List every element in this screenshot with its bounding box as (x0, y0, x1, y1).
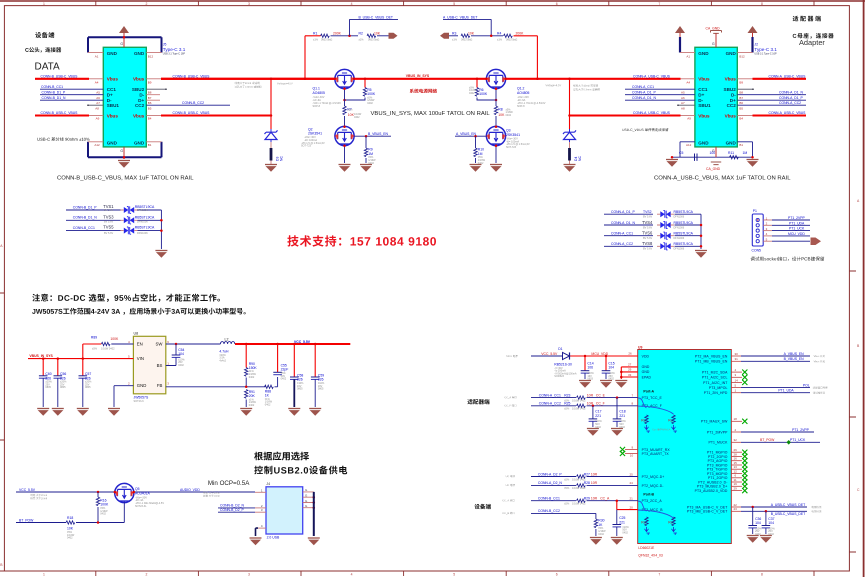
note gray under vcc wire (30, 494, 46, 500)
svg-text:R25: R25 (564, 402, 570, 406)
svg-text:A_VBUS_EN: A_VBUS_EN (456, 132, 477, 136)
pin30 wire A_VBUS_EN (731, 352, 825, 357)
svg-text:PT1_AI2C_INT: PT1_AI2C_INT (703, 381, 727, 385)
svg-text:TVS6: TVS6 (642, 231, 653, 236)
resistor R1 200K (312, 32, 342, 42)
svg-text:PT2_MQC-D-: PT2_MQC-D- (642, 484, 664, 488)
svg-text:CONN-B_D2_P: CONN-B_D2_P (220, 508, 244, 512)
wire R88 to C55 (275, 377, 278, 387)
svg-text:CONN-A_USB-C_VBUS: CONN-A_USB-C_VBUS (633, 111, 671, 115)
svg-text:DFN1006: DFN1006 (674, 237, 685, 240)
svg-text:CONN-A_CC2: CONN-A_CC2 (779, 101, 801, 105)
svg-text:PT2_MQC-D+: PT2_MQC-D+ (642, 475, 665, 479)
svg-text:SOP-8: SOP-8 (313, 105, 321, 108)
svg-text:AO4805: AO4805 (517, 91, 530, 95)
J4 gnd bus bar (313, 492, 315, 536)
svg-text:LD66021E: LD66021E (638, 546, 655, 550)
svg-text:B5: B5 (148, 106, 152, 110)
svg-text:GND: GND (698, 51, 709, 56)
junction (270, 114, 273, 117)
svg-text:B9: B9 (739, 81, 743, 85)
regulator U8 JW5057S (128, 332, 169, 403)
svg-text:6: 6 (556, 2, 558, 6)
pin32 wire BT_POW PT1_UCK (731, 438, 820, 444)
svg-text:29: 29 (734, 487, 738, 491)
resistor R7 10K (343, 106, 362, 119)
TVS3 row (66, 214, 161, 224)
junction C15 (605, 355, 608, 358)
svg-text:0805: 0805 (45, 386, 51, 389)
svg-text:AO3401A: AO3401A (135, 492, 150, 496)
svg-text:GND: GND (107, 141, 118, 146)
svg-text:7: 7 (632, 393, 634, 397)
svg-text:D-: D- (139, 92, 144, 97)
capacitor C14 (581, 356, 595, 381)
svg-text:1K: 1K (598, 523, 603, 527)
resistor R8 10K (494, 106, 513, 117)
svg-text:±1%: ±1% (497, 39, 503, 42)
pin1 wire PT1_UDA (731, 389, 825, 394)
junction R16 top (97, 491, 100, 494)
svg-text:VDD: VDD (642, 354, 650, 358)
J2 pin names (698, 51, 736, 146)
svg-text:CONN-A_USB-C_VBUS: CONN-A_USB-C_VBUS (633, 74, 671, 78)
junction R16 bottom (97, 521, 100, 524)
svg-text:0402: 0402 (249, 404, 255, 407)
svg-text:A5: A5 (681, 91, 685, 95)
P1 pin3 wire PT1_UCK (763, 227, 810, 231)
junction (293, 343, 296, 346)
svg-text:A12: A12 (94, 143, 100, 147)
J2 power arrow right CA_GND (748, 26, 758, 37)
svg-text:0603 5мΩ: 0603 5мΩ (506, 39, 517, 42)
resistor R89 100K (91, 336, 119, 351)
heading 设备端 bottom (475, 504, 491, 509)
wire D4 stem (569, 116, 571, 130)
svg-text:RB5STL9CA: RB5STL9CA (674, 232, 694, 236)
junction (270, 78, 273, 81)
junction (700, 245, 703, 248)
J5 top GND loop wire (88, 37, 162, 52)
svg-text:BT_POW: BT_POW (760, 438, 775, 442)
svg-text:G: G (712, 42, 715, 46)
J2 bottom rail (672, 156, 753, 158)
svg-text:2.0 USB: 2.0 USB (267, 535, 280, 539)
svg-text:200K: 200K (333, 32, 342, 36)
svg-text:A9: A9 (96, 117, 100, 121)
resistor R90 150K (245, 344, 258, 387)
svg-text:8: 8 (761, 573, 763, 577)
net CONN-A_CC1 wire left (625, 88, 695, 90)
svg-text:Min OCP=0.5A: Min OCP=0.5A (208, 480, 250, 487)
svg-text:0402: 0402 (354, 116, 360, 119)
svg-text:2: 2 (735, 428, 737, 432)
svg-text:±5%: ±5% (92, 348, 98, 351)
svg-text:RB5STL9CA: RB5STL9CA (674, 221, 694, 225)
J5 pin names (107, 51, 145, 146)
svg-text:POL: POL (803, 383, 810, 387)
transistor Q2 2SK3541 (335, 126, 354, 145)
svg-text:DFN1006: DFN1006 (137, 209, 148, 212)
svg-text:SOD523: SOD523 (554, 375, 564, 378)
svg-text:104: 104 (608, 366, 614, 370)
net CONN-A_D1_P wire left (625, 94, 695, 96)
svg-text:GND: GND (107, 51, 118, 56)
svg-text:BS: BS (157, 363, 163, 368)
net CONN-A_D2_N wire R28 row (506, 481, 638, 490)
svg-text:CONN-B_D1_N: CONN-B_D1_N (73, 216, 97, 220)
svg-text:26: 26 (628, 352, 632, 356)
svg-text:31: 31 (735, 357, 739, 361)
svg-text:B9: B9 (148, 81, 152, 85)
wire G to top rail (123, 36, 125, 47)
svg-text:SBU2: SBU2 (132, 87, 145, 92)
net CONN-B_USB-C_VBUS left wire (35, 78, 89, 80)
svg-text:J5: J5 (163, 43, 167, 47)
junction pin21 row (616, 499, 619, 502)
svg-text:VCC_5.5V: VCC_5.5V (19, 488, 36, 492)
svg-text:3: 3 (735, 373, 737, 377)
svg-text:A6: A6 (96, 96, 100, 100)
junction C36 (751, 506, 754, 509)
svg-text:A1: A1 (95, 54, 99, 58)
svg-text:Type-C 3.1: Type-C 3.1 (754, 47, 777, 52)
svg-text:221: 221 (595, 414, 601, 418)
svg-text:VBUS_IN_SYS: VBUS_IN_SYS (29, 354, 53, 358)
J5 G bottom stem (123, 147, 125, 159)
net CONN-B_D1_N wire (40, 99, 103, 101)
svg-text:20: 20 (630, 506, 634, 510)
diode D4 (563, 129, 576, 142)
svg-text:CONN-B_D1_N: CONN-B_D1_N (42, 96, 66, 100)
svg-text:SBU2: SBU2 (724, 87, 737, 92)
ground below Q2 (339, 165, 351, 172)
U9 right pin names (687, 354, 728, 513)
ground TVS left (155, 251, 167, 258)
wire Q1.2 to R8 (495, 89, 497, 106)
svg-text:RB5STL9CA: RB5STL9CA (135, 215, 155, 219)
svg-text:1K: 1K (265, 393, 270, 397)
svg-text:PT1_2IN_HPD: PT1_2IN_HPD (704, 391, 728, 395)
svg-text:SOT23-6: SOT23-6 (134, 400, 145, 403)
svg-text:USB 3.1 Type-C 16P: USB 3.1 Type-C 16P (754, 52, 777, 55)
svg-text:10R: 10R (591, 472, 598, 476)
svg-text:PT2_MA_VBUS_EN: PT2_MA_VBUS_EN (695, 354, 728, 358)
svg-text:6: 6 (556, 573, 558, 577)
svg-text:D1: D1 (558, 347, 562, 351)
svg-text:CONN-B_USB-C_VBUS: CONN-B_USB-C_VBUS (41, 74, 79, 78)
note trace width left (235, 82, 293, 88)
net CONN-A_CC1 wire (737, 104, 806, 106)
svg-text:A6: A6 (681, 96, 685, 100)
svg-text:BV 5.6V: BV 5.6V (643, 216, 653, 219)
ground C60 (37, 409, 49, 416)
wire U8 GND pin (114, 386, 133, 407)
svg-text:Adapter: Adapter (799, 38, 825, 47)
svg-text:B6: B6 (148, 101, 152, 105)
wire R1 branch (305, 36, 312, 79)
net CONN-B_CC1 wire (40, 88, 103, 90)
pin23 wire B_USB-C_VBUS_DET (731, 507, 821, 516)
svg-text:TVS8: TVS8 (642, 241, 653, 246)
net CONN-A_D2_P wire R27 row (506, 472, 638, 481)
svg-text:R89: R89 (91, 336, 97, 340)
svg-text:±5%: ±5% (564, 487, 570, 490)
J5 right lower Vbus wire (146, 115, 161, 117)
resistor R3 10K (449, 32, 475, 42)
note gray right of Q5 (203, 492, 219, 498)
note USB-C diff pair (37, 137, 89, 141)
svg-text:FB: FB (157, 383, 163, 388)
svg-text:14: 14 (735, 378, 739, 382)
svg-text:0805: 0805 (318, 388, 324, 391)
port arrow right (389, 33, 398, 39)
capacitor C5 (679, 151, 715, 161)
svg-text:VBUS_IN_SYS, MAX 100uF TATOL O: VBUS_IN_SYS, MAX 100uF TATOL ON RAIL (371, 111, 491, 117)
svg-text:25: 25 (630, 472, 634, 476)
svg-text:2: 2 (128, 382, 130, 386)
svg-text:106: 106 (587, 366, 593, 370)
svg-text:±5%: ±5% (564, 478, 570, 481)
svg-text:9: 9 (632, 445, 634, 449)
junction C18 (616, 396, 619, 399)
svg-text:Q5: Q5 (135, 487, 140, 491)
svg-text:J4: J4 (266, 482, 270, 486)
net CONN-B_D2_P wire (218, 508, 266, 512)
svg-text:PT3_2CC_A: PT3_2CC_A (642, 499, 663, 503)
resistor R2 10K (359, 32, 381, 42)
junction Q1.1 leads (334, 78, 337, 81)
wire Q2 gate right (354, 135, 391, 137)
svg-text:10K: 10K (468, 32, 475, 36)
J5 right D- D+ stubs (146, 95, 160, 101)
pin2 wire PT1_2VPP (731, 428, 814, 432)
svg-text:VIN: VIN (137, 356, 144, 361)
svg-text:PT1_AI2C_SCL: PT1_AI2C_SCL (702, 376, 728, 380)
net CONN-A_D1_N wire (737, 94, 806, 96)
resistor R91 20K (245, 390, 257, 408)
U9 GND EPAD bundle wires (621, 362, 637, 379)
svg-text:1M: 1M (478, 152, 483, 156)
heading C母座 连接器 (793, 33, 834, 39)
ground C57 (77, 409, 89, 416)
svg-text:B5: B5 (739, 106, 743, 110)
svg-text:EPAD: EPAD (642, 375, 652, 379)
svg-text:BV 5.6V: BV 5.6V (643, 226, 653, 229)
svg-text:CONN-A_D1_P: CONN-A_D1_P (632, 91, 656, 95)
ground C59 (309, 409, 321, 416)
junction gate node (343, 99, 346, 102)
junction gate node (495, 99, 498, 102)
svg-text:A8: A8 (681, 106, 685, 110)
svg-text:0402: 0402 (249, 376, 255, 379)
connector P1 CON5 (752, 209, 768, 253)
svg-text:RB5STL9CA: RB5STL9CA (674, 210, 694, 214)
ground C36 (747, 536, 759, 543)
pin3 nc stub (731, 373, 742, 377)
svg-text:GND: GND (134, 51, 145, 56)
wire vbus drop left (270, 79, 272, 116)
wire Q5 gate stem (123, 502, 125, 522)
svg-text:J2: J2 (754, 43, 758, 47)
svg-text:SOT-723: SOT-723 (506, 146, 517, 149)
note 控制USB2.0设备供电 (254, 466, 347, 475)
svg-text:CA_GND: CA_GND (706, 167, 721, 171)
IC U9 body (638, 346, 732, 558)
svg-text:CONN-A_CC1: CONN-A_CC1 (632, 85, 654, 89)
wire vbus drop right (569, 79, 571, 116)
svg-text:A8: A8 (95, 106, 99, 110)
J5 SBU2 nc stub (146, 88, 166, 90)
svg-text:1/16W 0402: 1/16W 0402 (572, 503, 586, 506)
svg-text:TVS3: TVS3 (103, 214, 114, 219)
svg-text:GND: GND (134, 141, 145, 146)
svg-text:GND: GND (642, 370, 650, 374)
capacitor C36 (748, 507, 762, 536)
svg-text:Q1.2: Q1.2 (517, 86, 524, 90)
ground C15 (600, 381, 612, 388)
ground C17 (587, 429, 599, 436)
J5 A12 stub (88, 141, 103, 143)
heading C公头 连接器 (25, 47, 61, 52)
svg-text:CON5: CON5 (752, 249, 762, 253)
nc X pin9 (620, 447, 625, 452)
svg-text:USB 3.1 Type-C 16P: USB 3.1 Type-C 16P (163, 52, 186, 55)
svg-text:CONN-A_CC1: CONN-A_CC1 (539, 393, 561, 397)
svg-text:B8: B8 (739, 91, 743, 95)
gpio X marks (742, 450, 747, 455)
svg-text:PT1_2MVPP: PT1_2MVPP (707, 430, 728, 434)
svg-text:R28: R28 (584, 481, 590, 485)
wire R6 to Q1.2 gate (477, 98, 496, 101)
nc X pin10 (620, 451, 625, 456)
ground R91 (240, 409, 252, 416)
port arrow P1 gnd (811, 238, 822, 246)
svg-text:100: 100 (710, 151, 716, 155)
J2 SBU2 right nc stub (737, 88, 753, 90)
svg-text:CONN-A_CC2: CONN-A_CC2 (539, 402, 561, 406)
junction J2 bottom right (751, 156, 754, 159)
J2 left navy bar (679, 37, 681, 53)
svg-text:5: 5 (735, 384, 737, 388)
svg-text:100K: 100K (110, 337, 119, 341)
capacitor C59 (311, 344, 325, 407)
svg-text:1/16W 0402: 1/16W 0402 (572, 487, 586, 490)
svg-text:SBU1: SBU1 (107, 103, 120, 108)
svg-text:10R: 10R (591, 481, 598, 485)
J2 B12 stub (737, 52, 752, 54)
svg-text:Q3: Q3 (506, 129, 511, 133)
junction (42, 357, 45, 360)
svg-text:±5%: ±5% (564, 408, 570, 411)
net CONN-B_CC2 wire (503, 509, 596, 514)
net VCC_5.5V wire to Q5 (16, 491, 255, 493)
svg-text:CONN-A_USB-C_VBUS: CONN-A_USB-C_VBUS (769, 74, 807, 78)
svg-text:BV 5.6V: BV 5.6V (104, 209, 114, 212)
note 系统电源网络 (410, 89, 437, 93)
ground C14 (579, 381, 591, 388)
U9 internal Ra pullups port A (638, 398, 650, 433)
svg-text:PT1_UDA: PT1_UDA (778, 389, 794, 393)
port arrow left (right group) (440, 33, 449, 39)
capacitor C18 (613, 398, 627, 429)
ground below J5 (118, 161, 130, 168)
svg-text:CONN-B_USB-C_VBUS: CONN-B_USB-C_VBUS (173, 111, 211, 115)
svg-text:BV 5.6V: BV 5.6V (104, 220, 114, 223)
svg-text:1: 1 (261, 488, 263, 492)
svg-text:JW5057S: JW5057S (134, 395, 149, 399)
capacitor C17 (589, 406, 603, 429)
svg-text:1: 1 (167, 361, 169, 365)
svg-text:CA_GND: CA_GND (706, 27, 721, 31)
svg-text:DFN1006: DFN1006 (674, 248, 685, 251)
J2 SBU1 stub (678, 104, 695, 106)
svg-text:BV 5.6V: BV 5.6V (104, 232, 114, 235)
net CONN-A_USB-C_VBUS right wire (737, 78, 752, 80)
svg-text:C5: C5 (679, 151, 683, 155)
heading 适配器端 mid (467, 399, 489, 404)
svg-text:RB5STL9CA: RB5STL9CA (135, 226, 155, 230)
svg-text:100K: 100K (367, 92, 376, 96)
junction (276, 343, 279, 346)
svg-text:CONN-B_CC1: CONN-B_CC1 (41, 85, 63, 89)
svg-text:GND: GND (726, 51, 737, 56)
J4 right G stubs (303, 488, 314, 508)
svg-text:CONN-A_CC2: CONN-A_CC2 (611, 242, 633, 246)
svg-text:150K: 150K (249, 366, 258, 370)
svg-text:CONN-A_D1_P: CONN-A_D1_P (611, 210, 635, 214)
pin4 nc stub (731, 368, 742, 372)
junction (160, 229, 163, 232)
connector J5 USB-C body (103, 47, 146, 147)
junction (700, 224, 703, 227)
ground TVS right (695, 251, 707, 258)
resistor R18 10K (66, 516, 75, 539)
ground J4 right (308, 538, 320, 545)
junction R9 top (365, 135, 368, 138)
svg-text:226: 226 (318, 378, 324, 382)
net CONN-B_USB-C_VBUS lower left wire (35, 114, 89, 116)
svg-text:A1: A1 (686, 54, 690, 58)
svg-text:QFN32_4X4_03: QFN32_4X4_03 (638, 554, 663, 558)
J2 designator (754, 43, 777, 56)
svg-text:±5%: ±5% (348, 108, 354, 111)
junction top rail (123, 36, 126, 39)
svg-text:A7: A7 (681, 101, 685, 105)
D4 body bar (569, 142, 571, 148)
junction (536, 78, 539, 81)
svg-text:R11: R11 (728, 151, 734, 155)
wire R2 to port (377, 35, 389, 37)
wire R4 to bus (514, 36, 538, 79)
svg-text:D-: D- (731, 92, 736, 97)
svg-text:226: 226 (297, 378, 303, 382)
diode D1 RB521S-30 (554, 347, 577, 378)
capacitor C56 (54, 359, 68, 407)
capacitor C55 22pF (273, 344, 288, 381)
svg-text:CC_E: CC_E (596, 393, 606, 397)
junction dots J4 gnd (313, 496, 316, 499)
wire R8 to Q3 (495, 116, 497, 127)
svg-text:R4: R4 (497, 32, 501, 36)
J4 pin1 stub (255, 491, 266, 493)
svg-text:VCC_5.5V: VCC_5.5V (541, 352, 558, 356)
svg-text:A9: A9 (687, 117, 691, 121)
J5 power arrow top (119, 26, 129, 37)
ground J4 left (250, 538, 262, 545)
note 调试用socket (751, 257, 825, 261)
SBU1 nc stub (88, 104, 103, 106)
